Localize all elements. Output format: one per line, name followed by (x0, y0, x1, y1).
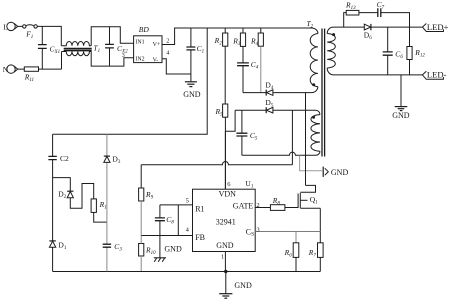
svg-text:L: L (3, 22, 8, 31)
svg-text:GND: GND (234, 281, 252, 290)
wire D6 to LED+ terminal (372, 26, 423, 28)
capacitor CX2 (105, 27, 114, 66)
svg-text:R3: R3 (232, 36, 241, 47)
wire secondary bottom to LED- (327, 68, 422, 75)
divider tap from aux (291, 110, 293, 165)
wire C5 bottom to aux winding bottom with hop (242, 151, 320, 155)
resistor R12 (407, 27, 412, 75)
ground under IC (219, 272, 232, 299)
svg-text:U1: U1 (245, 179, 253, 190)
IC pin6 lead (224, 131, 226, 189)
feedback sense wire with hop over VDN line (141, 162, 292, 165)
svg-text:GND: GND (183, 90, 201, 99)
svg-text:4: 4 (186, 227, 190, 234)
feedback wire to IC (141, 235, 192, 237)
terminal LED+ (422, 24, 443, 32)
aux polarity dot (312, 116, 315, 119)
resistor R5 (223, 104, 228, 189)
svg-text:GND: GND (392, 111, 410, 120)
wire bridge V+ to top rail (162, 28, 318, 45)
resistor R8 (270, 205, 285, 211)
resistor R6 (293, 232, 299, 272)
diode D6 (364, 24, 371, 30)
svg-text:T2: T2 (307, 19, 314, 30)
aux ground symbol (323, 167, 328, 177)
svg-text:R1: R1 (195, 205, 204, 214)
valley-fill D2 branch wire (53, 178, 71, 192)
resistor R4 (258, 28, 263, 93)
terminal L (7, 22, 18, 30)
gate wire (255, 194, 298, 208)
resistor R2 (223, 28, 228, 104)
diode D5 (266, 107, 273, 113)
svg-text:R2: R2 (214, 36, 223, 47)
IC pin1 lead to ground rail (224, 252, 226, 272)
capacitor C4 (237, 63, 249, 93)
capacitor C3 (103, 244, 111, 247)
svg-text:D5: D5 (265, 98, 273, 109)
transformer T2 aux winding (311, 115, 320, 152)
resistor R9 (139, 165, 144, 236)
svg-text:V-: V- (153, 58, 159, 64)
svg-text:D6: D6 (364, 31, 372, 42)
terminal LED- (422, 71, 443, 79)
svg-text:R8: R8 (272, 196, 281, 207)
svg-text:GND: GND (331, 168, 349, 177)
svg-text:2: 2 (256, 202, 259, 209)
svg-text:R13: R13 (345, 1, 356, 12)
bridge rectifier BD box (134, 36, 162, 63)
resistor R1 (91, 199, 107, 222)
svg-text:C1: C1 (197, 44, 205, 55)
svg-text:D2: D2 (58, 190, 66, 201)
transformer T2 core (322, 29, 325, 157)
svg-text:32941: 32941 (216, 217, 236, 226)
choke T1 bottom winding (62, 52, 92, 56)
fuse F1 (18, 25, 38, 28)
svg-text:R6: R6 (284, 248, 293, 258)
svg-text:CS: CS (246, 227, 254, 237)
diode D3 (104, 156, 110, 162)
svg-text:CX1: CX1 (50, 44, 61, 55)
pin5 wire and parallel drop (160, 205, 193, 236)
svg-text:2: 2 (166, 38, 169, 44)
svg-text:T1: T1 (93, 44, 100, 55)
capacitor CX1 (38, 26, 47, 69)
junction dot main ground (224, 270, 227, 273)
wire bridge V- to C1 bottom (162, 59, 191, 74)
resistor R11 (18, 67, 62, 71)
svg-text:C5: C5 (250, 131, 258, 142)
capacitor C7 (378, 8, 410, 27)
diode D1 (49, 241, 55, 272)
svg-text:Q1: Q1 (310, 195, 318, 206)
svg-text:R4: R4 (250, 36, 259, 47)
snubber tap wire (344, 13, 347, 28)
chassis ground under C8 (154, 236, 166, 262)
svg-text:R9: R9 (145, 190, 154, 201)
aux ground wire (300, 155, 322, 171)
svg-text:GND: GND (216, 241, 234, 250)
IC U1 box (193, 189, 256, 251)
ground under C1 (185, 74, 197, 87)
svg-text:C6: C6 (395, 50, 403, 61)
svg-text:FB: FB (195, 233, 205, 242)
drain wire from primary (305, 93, 307, 186)
transformer T2 primary winding (310, 34, 318, 87)
svg-text:D3: D3 (112, 155, 120, 166)
svg-text:1: 1 (221, 253, 224, 260)
svg-text:R7: R7 (308, 248, 317, 258)
wire DC bus down to valley-fill rail (53, 28, 208, 134)
svg-text:6: 6 (227, 181, 231, 188)
svg-text:V+: V+ (153, 42, 161, 48)
capacitor C6 (383, 27, 393, 75)
svg-text:LED+: LED+ (427, 22, 449, 32)
svg-text:R10: R10 (145, 246, 156, 257)
svg-text:D1: D1 (58, 241, 66, 252)
svg-text:GND: GND (164, 244, 182, 253)
resistor R10 (139, 236, 144, 272)
svg-text:4: 4 (166, 50, 169, 56)
svg-text:IN2: IN2 (135, 57, 144, 63)
svg-text:R12: R12 (414, 48, 425, 59)
transformer T2 secondary winding (327, 34, 335, 69)
svg-text:BD: BD (139, 25, 150, 34)
wire secondary top to LED+ (327, 27, 364, 33)
wire N-rail into choke (61, 52, 63, 70)
svg-text:3: 3 (256, 226, 259, 233)
clamp wire to primary bottom (243, 87, 318, 93)
svg-text:LED-: LED- (427, 70, 447, 80)
current sense wire (255, 231, 320, 233)
choke T1 core (64, 49, 92, 51)
diode D2 (67, 184, 94, 209)
capacitor C5 (236, 110, 247, 155)
wire L-rail to choke (37, 26, 61, 45)
resistor R13 (346, 10, 377, 15)
wire D5 anode to aux winding top (273, 110, 320, 114)
valley-fill middle branch (106, 134, 108, 271)
valley-fill left branch with C2 (48, 134, 56, 241)
wire choke to CX2 top (91, 27, 133, 46)
svg-text:IN1: IN1 (135, 40, 144, 46)
ground under output (395, 75, 408, 111)
resistor R3 (240, 28, 245, 63)
svg-text:GATE: GATE (233, 202, 254, 211)
resistor R7 (318, 243, 324, 272)
svg-text:C3: C3 (114, 242, 122, 253)
svg-text:F1: F1 (25, 30, 33, 41)
svg-text:D4: D4 (265, 81, 273, 92)
svg-text:C7: C7 (377, 0, 385, 10)
primary polarity dot (312, 83, 315, 86)
source wire down through CS node (319, 208, 321, 243)
svg-text:R1: R1 (99, 200, 107, 211)
aux rectifier wire with jog to VDN line (225, 110, 266, 131)
svg-text:5: 5 (186, 197, 189, 204)
svg-text:VDN: VDN (219, 189, 237, 198)
bottom ground rail (53, 271, 321, 273)
svg-text:C8: C8 (166, 215, 174, 226)
svg-text:R5: R5 (215, 107, 224, 118)
svg-text:3: 3 (122, 53, 125, 59)
diode D4 (266, 90, 273, 96)
terminal N (7, 65, 18, 73)
secondary polarity dot (332, 33, 335, 36)
capacitor C1 (186, 28, 195, 74)
wire choke to CX2 bottom (91, 52, 133, 67)
svg-text:C2: C2 (60, 154, 69, 163)
svg-text:C4: C4 (251, 60, 259, 71)
svg-text:N: N (3, 65, 9, 74)
capacitor C8 (155, 205, 165, 236)
mosfet Q1 (300, 185, 320, 208)
svg-text:R11: R11 (24, 73, 34, 84)
choke T1 top winding (61, 42, 91, 46)
